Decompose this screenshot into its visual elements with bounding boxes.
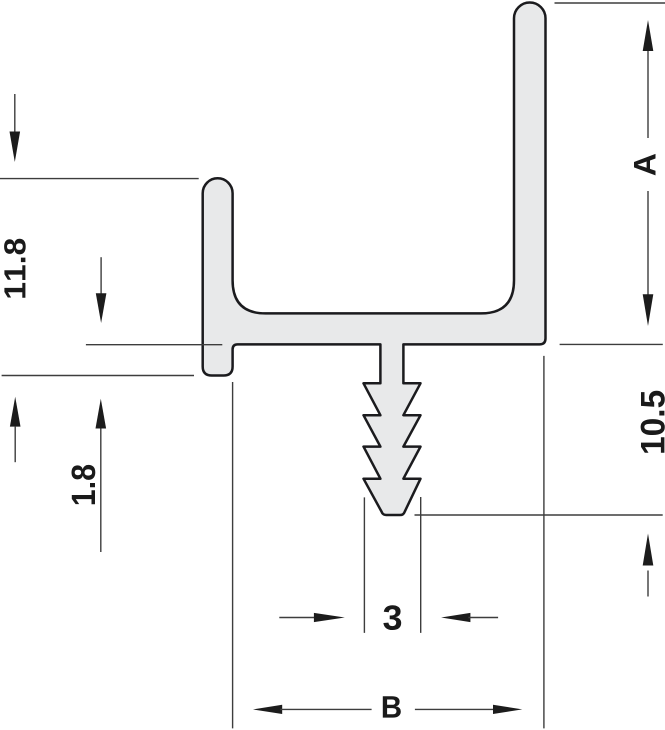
dimension B : left line [280, 708, 371, 710]
dimension B : right line [415, 708, 496, 710]
dimension 11.8 : bottom arrow tail [14, 427, 16, 463]
profile cross-section (aluminium extrusion) [203, 3, 546, 516]
dimension A : top arrowhead (up) [643, 20, 654, 51]
dimension B : left arrowhead (left-pointing) [253, 705, 282, 714]
dimension 3 : right arrow tail [468, 617, 498, 619]
dimension 3 : left extension line [363, 497, 365, 633]
dimension 1.8 : top arrow line [100, 257, 102, 298]
dimension 3 : left arrowhead (right-pointing) [314, 613, 345, 622]
dimension A : label [634, 154, 656, 176]
dimension B : right arrowhead (right-pointing) [493, 705, 522, 714]
dimension 11.8 : label [4, 239, 26, 298]
dimension 1.8 : bottom arrow tail [100, 429, 102, 553]
dimension A : lower line [647, 191, 649, 296]
dimension 11.8 : top arrow line [14, 94, 16, 133]
dimension B : label [383, 696, 401, 717]
dimension 11.8 : lower extension line [2, 375, 194, 377]
dimension 3 : right extension line [420, 497, 422, 633]
dimension 10.5 : arrow tail [647, 571, 649, 597]
dimension 3 : right arrowhead (left-pointing) [441, 613, 470, 622]
dimension 11.8 : top arrowhead (down) [10, 132, 21, 163]
dimension 1.8 : upper extension line [86, 344, 222, 346]
dimension B : left extension line [232, 382, 234, 728]
dimension 1.8 : bottom arrowhead (up) [96, 399, 107, 429]
dimension 10.5 : arrowhead (up) [643, 534, 654, 566]
dimension A : bottom arrowhead (down) [643, 294, 654, 326]
dimension 10.5 : label [641, 391, 665, 453]
dimension 3 : label [383, 605, 401, 630]
dimension 11.8 : bottom arrowhead (up) [10, 397, 21, 427]
dimension A : bottom extension line [560, 343, 663, 345]
dimension A : top extension line [555, 2, 665, 4]
dimension 1.8 : label [72, 465, 96, 504]
dimension 3 : left arrow tail [279, 617, 316, 619]
dimension 10.5 : lower extension line (spigot tip) [415, 514, 663, 516]
dimension 11.8 : upper extension line [0, 178, 199, 180]
dimension 1.8 : top arrowhead (down) [96, 293, 107, 323]
dimension A : upper line [647, 51, 649, 138]
dimension B : right extension line [543, 356, 545, 729]
